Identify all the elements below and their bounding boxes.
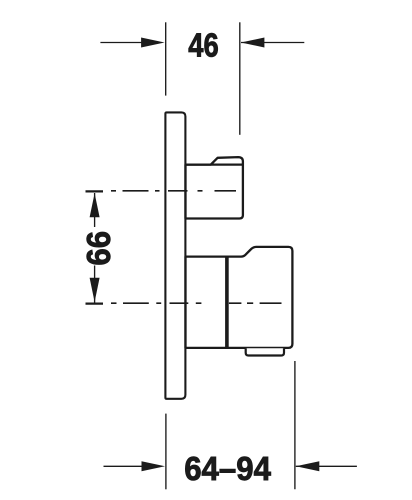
svg-text:66: 66 (81, 231, 118, 266)
dimension 64-94: left extension line (165, 414, 167, 490)
dimension 46: right arrowhead (241, 38, 265, 48)
bottom tab under knob (246, 348, 284, 355)
dimension 64-94: right dimension line (296, 465, 357, 467)
lower centerline (dash-dot) (111, 302, 282, 304)
upper handle body top edge line (186, 163, 243, 165)
dimension 46: left arrowhead (141, 38, 165, 48)
dimension 46: right extension line (239, 22, 241, 135)
svg-text:64–94: 64–94 (184, 451, 271, 488)
dimension 66: bottom T-bar (86, 302, 104, 304)
dimension 46: left dimension line (100, 42, 145, 44)
dimension 66: down arrowhead (90, 278, 100, 302)
wall plate (escutcheon, side view) (165, 112, 185, 398)
dimension 46: right dimension line (241, 42, 304, 44)
dimension 64-94: left arrowhead (142, 461, 166, 471)
dimension 66: upper stem (94, 193, 96, 227)
lower handle base + knob (volume control) (186, 247, 293, 348)
upper handle body (temperature control) (186, 157, 243, 218)
dimension 66: up arrowhead (90, 193, 100, 217)
dimension 46: left extension line (165, 22, 167, 95)
dimension 66: lower stem (94, 266, 96, 303)
dimension 64-94: right arrowhead (296, 461, 320, 471)
svg-text:46: 46 (188, 28, 218, 65)
divider line between base and knob (225, 256, 229, 348)
upper centerline (dash-dot) (111, 190, 236, 192)
dimension 66: top T-bar (86, 190, 104, 192)
dimension 64-94: right extension line (294, 361, 296, 489)
dimension 64-94: left dimension line (104, 465, 146, 467)
